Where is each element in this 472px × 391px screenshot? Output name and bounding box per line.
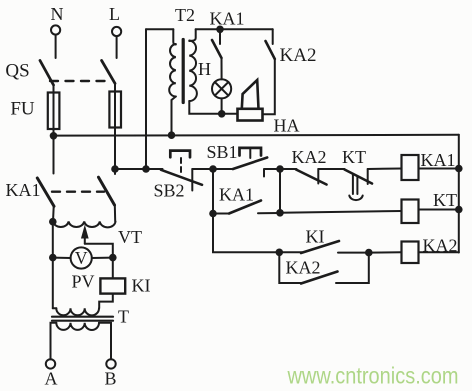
svg-text:KA2: KA2 xyxy=(280,45,317,66)
svg-text:FU: FU xyxy=(10,99,35,120)
svg-text:KA2: KA2 xyxy=(286,258,321,278)
svg-text:B: B xyxy=(104,369,116,389)
svg-text:KA2: KA2 xyxy=(423,236,458,256)
svg-text:KA1: KA1 xyxy=(219,185,254,205)
svg-text:SB1: SB1 xyxy=(206,142,237,162)
svg-text:KT: KT xyxy=(342,147,366,167)
svg-text:HA: HA xyxy=(274,116,300,136)
svg-text:QS: QS xyxy=(5,61,29,82)
svg-text:L: L xyxy=(109,4,120,24)
svg-text:SB2: SB2 xyxy=(153,181,184,201)
svg-text:H: H xyxy=(198,59,211,79)
svg-text:KT: KT xyxy=(433,190,457,210)
svg-text:VT: VT xyxy=(118,227,142,247)
svg-text:KI: KI xyxy=(132,276,151,296)
svg-text:KA2: KA2 xyxy=(292,147,327,167)
svg-text:T: T xyxy=(118,307,129,327)
svg-text:www.cntronics.com: www.cntronics.com xyxy=(287,363,459,389)
svg-text:T2: T2 xyxy=(175,5,195,25)
svg-text:KA1: KA1 xyxy=(210,9,245,29)
svg-text:KI: KI xyxy=(306,227,325,247)
svg-text:KA1: KA1 xyxy=(421,150,456,170)
svg-text:PV: PV xyxy=(71,272,94,292)
svg-text:N: N xyxy=(51,4,64,24)
svg-text:V: V xyxy=(75,248,88,268)
svg-text:A: A xyxy=(45,369,58,389)
svg-text:KA1: KA1 xyxy=(6,180,41,200)
